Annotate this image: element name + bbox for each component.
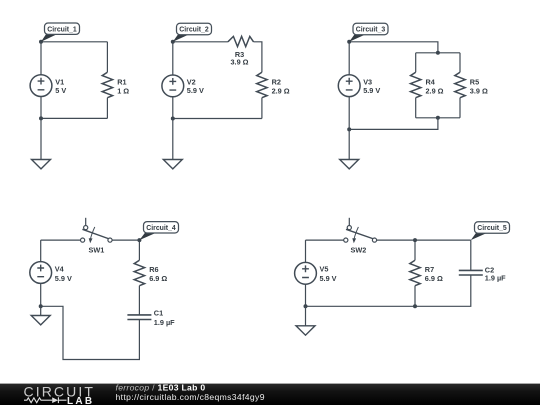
logo resistor zigzag	[24, 398, 52, 403]
label Circuit_2	[173, 23, 212, 42]
footer title line	[116, 382, 206, 392]
svg-text:Circuit_1: Circuit_1	[47, 26, 77, 33]
svg-text:SW1: SW1	[89, 245, 105, 254]
node parallel top C3	[436, 51, 440, 55]
switch SW1	[81, 218, 113, 255]
svg-text:1.9 µF: 1.9 µF	[154, 318, 175, 327]
resistor R2	[257, 72, 290, 98]
wire right upper C1	[106, 42, 108, 72]
node top-left C2	[171, 40, 175, 44]
label Circuit_5	[471, 222, 510, 240]
voltage source V1	[30, 75, 66, 97]
node bottom-left C1	[39, 116, 43, 120]
svg-text:LAB: LAB	[67, 396, 94, 405]
logo CIRCUIT text	[24, 383, 95, 399]
svg-text:R1: R1	[117, 77, 126, 86]
svg-text:5.9 V: 5.9 V	[187, 86, 204, 95]
svg-text:6.9 Ω: 6.9 Ω	[425, 274, 443, 283]
svg-text:5.9 V: 5.9 V	[363, 86, 380, 95]
node R7 top C5	[413, 238, 417, 242]
wire ground stem C1	[40, 118, 42, 159]
svg-text:http://circuitlab.com/c8eqms34: http://circuitlab.com/c8eqms34f4gy9	[116, 392, 265, 402]
wire R5 lower C3	[459, 98, 461, 118]
node bottom-left C2	[171, 117, 175, 121]
svg-text:2.9 Ω: 2.9 Ω	[426, 86, 444, 95]
wire left lower C5	[305, 284, 307, 306]
wire left upper C1	[40, 42, 42, 75]
wire switch to C2 cap C5	[377, 239, 471, 241]
wire ground stem C5	[305, 306, 307, 326]
svg-text:5 V: 5 V	[55, 86, 66, 95]
node bottom-left C4	[39, 304, 43, 308]
wire top-left C2	[173, 41, 228, 43]
ground C4	[31, 316, 50, 325]
node top-left C1	[39, 40, 43, 44]
svg-text:Circuit_5: Circuit_5	[477, 225, 507, 232]
svg-text:V1: V1	[55, 77, 64, 86]
wire left upper C4	[40, 240, 42, 262]
wire bottom C1	[41, 117, 107, 119]
label Circuit_3	[349, 23, 388, 42]
wire R4 upper C3	[415, 53, 417, 72]
wire bottom C2	[173, 118, 262, 120]
wire parallel top C3	[416, 52, 460, 54]
svg-text:5.9 V: 5.9 V	[320, 274, 337, 283]
switch SW2	[344, 218, 377, 255]
wire left lower C2	[172, 97, 174, 119]
wire top-left C5	[306, 239, 344, 241]
svg-text:V2: V2	[187, 77, 196, 86]
node bottom-left C3	[347, 127, 351, 131]
svg-text:1 Ω: 1 Ω	[117, 86, 129, 95]
wire bottom C3	[349, 118, 438, 130]
logo diode	[52, 397, 66, 403]
wire node down C4	[138, 240, 140, 260]
node top C4	[137, 238, 141, 242]
node parallel bottom C3	[436, 116, 440, 120]
resistor R7	[410, 260, 443, 286]
svg-text:6.9 Ω: 6.9 Ω	[149, 274, 167, 283]
voltage source V2	[162, 75, 204, 97]
wire R7 upper C5	[414, 240, 416, 260]
svg-text:V4: V4	[55, 265, 65, 274]
svg-text:3.9 Ω: 3.9 Ω	[470, 86, 488, 95]
wire parallel bottom C3	[416, 117, 460, 119]
svg-text:R4: R4	[426, 77, 436, 86]
wire R7 lower C5	[414, 286, 416, 307]
wire ground stem C2	[172, 119, 174, 160]
wire left upper C2	[172, 42, 174, 75]
svg-text:Circuit_2: Circuit_2	[179, 27, 209, 34]
wire top-left C4	[41, 239, 81, 241]
svg-text:Circuit_4: Circuit_4	[146, 225, 176, 232]
svg-text:R2: R2	[272, 77, 281, 86]
capacitor C2	[459, 266, 506, 283]
svg-text:R7: R7	[425, 265, 434, 274]
node top-left C3	[347, 40, 351, 44]
wire top C3	[349, 42, 438, 53]
wire left lower C3	[348, 97, 350, 130]
wire left lower C4	[40, 283, 42, 306]
wire right lower C2	[261, 98, 263, 119]
wire left lower C1	[40, 97, 42, 119]
wire C1 bottom loop C4	[41, 306, 140, 359]
svg-text:V5: V5	[320, 265, 329, 274]
wire right lower C1	[106, 98, 108, 119]
svg-text:V3: V3	[363, 77, 372, 86]
ground C3	[340, 160, 359, 169]
resistor R4	[411, 72, 444, 98]
wire left upper C5	[305, 240, 307, 262]
wire top C1	[41, 41, 107, 43]
svg-text:R5: R5	[470, 77, 479, 86]
svg-text:2.9 Ω: 2.9 Ω	[272, 86, 290, 95]
resistor R6	[134, 260, 167, 286]
wire ground stem C3	[348, 129, 350, 159]
logo LAB text	[67, 396, 94, 405]
resistor R5	[455, 72, 488, 98]
svg-text:3.9 Ω: 3.9 Ω	[230, 58, 248, 67]
svg-text:R6: R6	[149, 265, 158, 274]
svg-text:1.9 µF: 1.9 µF	[485, 274, 506, 283]
wire switch to node C4	[112, 239, 139, 241]
wire top-right C2	[254, 42, 262, 72]
ground C2	[163, 160, 182, 169]
resistor R3	[228, 36, 254, 66]
resistor R1	[102, 72, 129, 98]
voltage source V4	[30, 262, 72, 284]
capacitor C1	[127, 309, 175, 328]
ground C5	[296, 326, 315, 335]
voltage source V5	[295, 262, 337, 284]
wire ground stem C4	[40, 306, 42, 315]
node bottom-left C5	[304, 304, 308, 308]
svg-text:C1: C1	[154, 309, 163, 318]
wire R4 lower C3	[415, 98, 417, 118]
svg-text:SW2: SW2	[351, 245, 367, 254]
voltage source V3	[338, 75, 380, 97]
svg-text:5.9 V: 5.9 V	[55, 274, 72, 283]
label Circuit_4	[139, 222, 178, 241]
wire left upper C3	[348, 42, 350, 75]
wire R6 to C1	[138, 286, 140, 315]
ground C1	[32, 160, 51, 169]
wire R5 upper C3	[459, 53, 461, 72]
label Circuit_1	[41, 23, 80, 42]
wire C2 lower C5	[306, 275, 471, 306]
node R7 bottom C5	[413, 304, 417, 308]
wire C2 upper C5	[470, 240, 472, 270]
svg-text:Circuit_3: Circuit_3	[356, 27, 386, 34]
footer url line	[116, 392, 265, 402]
